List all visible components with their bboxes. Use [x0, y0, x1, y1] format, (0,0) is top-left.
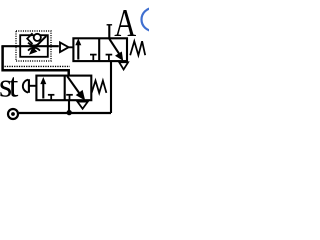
svg-text:t: t [9, 68, 19, 105]
svg-text:A: A [114, 1, 136, 44]
